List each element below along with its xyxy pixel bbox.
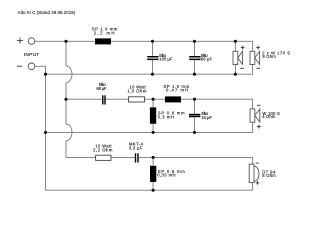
svg-text:2,2 mH: 2,2 mH: [94, 31, 115, 36]
wire speaker1 top lead: [234, 41, 236, 51]
wire woofer return rail: [46, 65, 253, 75]
node woofer return / S1: [234, 73, 237, 76]
wire plus bus lower segment: [65, 141, 67, 158]
wire plus bus upper segment: [65, 41, 67, 66]
wire hop over mid return: [66, 124, 72, 141]
wire mid rail inductor to speaker: [181, 99, 253, 109]
wire mid return rail: [46, 122, 253, 132]
speaker S2 minus sign: [256, 67, 260, 69]
speaker S1 cone: [238, 51, 243, 64]
wire L4 top lead: [152, 157, 154, 165]
inductor L3 3.3mH bar: [150, 107, 156, 123]
terminal minus input circle: [28, 63, 35, 70]
svg-text:0,47 mH: 0,47 mH: [166, 88, 188, 93]
wire C2 top lead: [194, 41, 196, 56]
svg-text:Alto III C (Stand 29.06.2015): Alto III C (Stand 29.06.2015): [18, 10, 76, 15]
node woofer return / minus bus: [44, 73, 47, 76]
node mid rail / C4: [193, 98, 196, 101]
speaker S3 cone: [255, 109, 260, 122]
terminal plus input circle: [28, 38, 35, 45]
inductor L1 2.2mH bar: [95, 38, 111, 44]
wire speaker1 bottom lead: [234, 65, 236, 75]
inductor L2 0.47mH bar: [165, 96, 181, 102]
capacitor C5 MKT-A plates: [135, 153, 139, 162]
wire C1 bottom lead: [152, 60, 154, 74]
node woofer return / C1: [151, 73, 154, 76]
speaker S1 W170S rect: [233, 51, 238, 64]
wire L3 bottom lead: [152, 124, 154, 133]
wire C2 bottom lead: [194, 60, 196, 74]
wire plus bus mid segment: [65, 83, 67, 124]
wire C4 bottom lead: [194, 117, 196, 132]
svg-text:8 Ohm: 8 Ohm: [262, 54, 276, 59]
node top rail / C1: [151, 40, 154, 43]
svg-text:68 µF: 68 µF: [201, 56, 213, 61]
wire C1 top lead: [152, 41, 154, 56]
svg-text:15 µF: 15 µF: [201, 115, 212, 120]
capacitor C1 Elko 100uF plates: [147, 56, 158, 60]
minus sign input: [17, 65, 22, 67]
speaker S1 plus sign: [241, 46, 245, 50]
svg-text:1,0 Ohm: 1,0 Ohm: [127, 88, 147, 93]
node top rail / plus bus: [64, 40, 67, 43]
node mid rail / L3: [152, 98, 155, 101]
wire minus input to bus: [35, 66, 46, 74]
speaker S3 W100S rect: [250, 109, 255, 122]
node tweeter return / L4: [152, 189, 155, 192]
svg-text:0,33 mH: 0,33 mH: [157, 173, 175, 178]
wire mid rail resistor to inductor: [145, 98, 166, 100]
capacitor C4 Elko 15uF plates: [189, 114, 200, 117]
plus sign input: [17, 38, 23, 44]
wire tweeter rail cap to speaker: [139, 157, 253, 164]
svg-text:100 µF: 100 µF: [159, 56, 172, 61]
capacitor C3 Elko 68uF series plates: [102, 95, 106, 104]
svg-text:3,3 mH: 3,3 mH: [158, 114, 175, 119]
node mid return / L3: [152, 131, 155, 134]
speaker S4 dome: [254, 166, 259, 181]
speaker S4 minus sign: [256, 162, 259, 164]
svg-text:8 Ohm: 8 Ohm: [262, 173, 276, 178]
wire top rail: [35, 41, 253, 51]
svg-text:4 Ohm: 4 Ohm: [262, 114, 276, 119]
capacitor C2 Elko 68uF plates: [189, 56, 200, 60]
wire C4 top lead: [194, 99, 196, 114]
speaker S4 DT94 rect: [249, 164, 254, 183]
speaker S2 cone: [255, 51, 260, 64]
wire L4 bottom lead: [152, 182, 154, 190]
svg-text:INPUT: INPUT: [24, 52, 39, 58]
node woofer return / C2: [193, 73, 196, 76]
resistor R1 1.0 Ohm: [129, 97, 145, 102]
wire tweeter rail: [66, 156, 96, 158]
node mid return / C4: [193, 131, 196, 134]
wire tweeter rail resistor to cap: [111, 156, 135, 158]
wire mid rail: [66, 98, 102, 100]
wire L3 top lead: [152, 99, 154, 107]
speaker S2 W170S rect: [250, 51, 255, 64]
wire mid rail cap to resistor: [106, 98, 129, 100]
speaker S3 minus sign: [257, 104, 261, 106]
svg-text:68 µF: 68 µF: [96, 86, 107, 91]
node tweeter rail / L4: [152, 156, 155, 159]
node top rail / C2: [193, 40, 196, 43]
speaker S4 plus sign: [256, 181, 260, 185]
node mid return / minus bus: [44, 131, 47, 134]
resistor R2 2.2 Ohm: [96, 155, 111, 160]
svg-text:2,2 Ohm: 2,2 Ohm: [93, 147, 113, 152]
wire minus bus down left side: [46, 74, 253, 190]
inductor L4 0.33mH bar: [150, 166, 156, 182]
speaker S1 minus sign: [240, 67, 244, 69]
wire hop over woofer return: [66, 66, 72, 83]
node mid rail / plus bus: [64, 98, 67, 101]
speaker S3 plus sign: [257, 125, 261, 129]
svg-text:3,3 µF: 3,3 µF: [129, 145, 143, 150]
speaker S2 plus sign: [256, 46, 260, 50]
node top rail / S1: [234, 40, 237, 43]
